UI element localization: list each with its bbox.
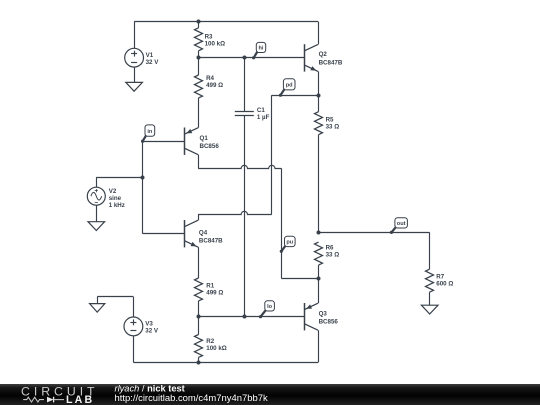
label R1 499 &#937; (206, 283, 223, 297)
svg-text:http://circuitlab.com/c4m7ny4n: http://circuitlab.com/c4m7ny4n7bb7k (115, 393, 268, 404)
node: R1 / R2 / lo junction (197, 315, 201, 319)
wire: Q3 emitter lead (to R6) (318, 278, 320, 303)
wire: Q4 emitter lead (to R1) (198, 247, 200, 278)
wire: pd net vertical (271, 95, 273, 214)
svg-text:R7: R7 (436, 273, 444, 280)
label C1 1 &#181;F (257, 107, 270, 121)
resistor R2 (195, 317, 203, 363)
svg-text:R4: R4 (206, 75, 214, 82)
wire: ground stem (V3) (97, 297, 99, 304)
wire: Q4 collector lead (198, 214, 200, 220)
svg-text:Q3: Q3 (319, 310, 328, 317)
label Q4 BC847B (199, 229, 223, 244)
wire: out net horizontal (318, 232, 430, 234)
label V3 32 V (145, 320, 159, 334)
wire: lo net (to Q3 base) (198, 316, 304, 318)
node: R6 bottom / Q3 emitter / pu junction (317, 277, 321, 281)
node: R2 / bottom rail junction (197, 361, 201, 365)
wire: pu net vertical (281, 168, 283, 278)
ground (V3 positive reference) (90, 304, 105, 313)
svg-text:V1: V1 (146, 52, 154, 59)
node: C1 top junction (243, 56, 247, 60)
wire: pu net to R6 bottom (281, 278, 318, 280)
svg-text:hi: hi (259, 46, 264, 52)
svg-text:499 Ω: 499 Ω (206, 290, 223, 297)
ground (below V2) (88, 222, 105, 231)
svg-text:out: out (397, 221, 406, 227)
CircuitLab logo resistor-diode glyph (23, 397, 64, 403)
svg-text:33 Ω: 33 Ω (326, 123, 340, 130)
svg-text:100 kΩ: 100 kΩ (206, 345, 226, 352)
wire: Q1 base wire (143, 141, 185, 143)
capacitor C1 (235, 58, 254, 317)
resistor R1 (195, 278, 203, 317)
label R4 499 &#937; (206, 75, 223, 89)
wire: out net vertical to R7 (429, 232, 431, 269)
svg-text:BC856: BC856 (319, 318, 339, 325)
transistor Q4 (NPN) (184, 220, 198, 247)
svg-text:1 kHz: 1 kHz (109, 202, 125, 209)
footer bar background (0, 384, 540, 405)
node: rail / R3 junction (197, 20, 201, 24)
svg-text:V3: V3 (145, 320, 153, 327)
flag: net in (141, 125, 155, 143)
wire: V1 top lead (134, 22, 136, 49)
svg-text:BC856: BC856 (200, 143, 220, 150)
svg-text:BC847B: BC847B (199, 237, 223, 244)
svg-text:32 V: 32 V (146, 59, 160, 66)
wire: in net vertical (Q1 base to Q4 base) (142, 141, 144, 234)
svg-text:lo: lo (267, 304, 273, 310)
resistor R5 (315, 95, 323, 232)
flag: net hi (252, 42, 266, 59)
svg-text:V2: V2 (109, 188, 117, 195)
svg-text:pd: pd (286, 83, 293, 89)
svg-text:1 µF: 1 µF (257, 114, 270, 121)
label Q1 BC856 (200, 135, 220, 150)
node: R5 / R6 / out junction (317, 231, 321, 235)
wire: Q2 collector lead to rail (318, 22, 320, 45)
svg-text:600 Ω: 600 Ω (436, 280, 453, 287)
wire: pu net horizontal (Q1 collector, hops over C1 and pd wires) (198, 165, 281, 168)
label R7 600 &#937; (436, 273, 453, 287)
wire: V1 bottom lead (134, 67, 136, 83)
wire: Q2 emitter lead (318, 71, 320, 95)
wire: V2 to in net (96, 177, 142, 179)
wire: bottom rail (133, 362, 318, 364)
node: C1 bottom / lo junction (243, 315, 247, 319)
wire: pd net horizontal top (272, 95, 318, 97)
node: V2 / in net junction (141, 176, 145, 180)
svg-text:Q4: Q4 (199, 229, 208, 236)
ground (below R7) (421, 305, 438, 314)
resistor R7 (426, 269, 434, 305)
svg-text:R2: R2 (206, 338, 214, 345)
wire: V3 to ground horizontal (97, 296, 133, 298)
flag: net lo (259, 301, 275, 319)
flag: net pd (279, 79, 295, 97)
transistor Q2 (NPN) (304, 44, 318, 71)
svg-text:in: in (147, 129, 153, 135)
label R2 100 k&#937; (206, 338, 226, 352)
svg-text:sine: sine (109, 195, 122, 202)
resistor R3 (195, 22, 203, 58)
wire: top supply rail (134, 21, 318, 23)
wire: V2 bottom lead (96, 205, 98, 222)
resistor R6 (315, 242, 323, 278)
wire: pd net to Q4 collector (hops over C1 wire) (198, 211, 272, 214)
node: R3 bottom / hi net (197, 56, 201, 60)
svg-text:Q2: Q2 (319, 51, 328, 58)
transistor Q3 (PNP) (304, 303, 318, 330)
label R3 100 k&#937; (205, 34, 225, 48)
svg-text:LAB: LAB (66, 394, 94, 405)
wire: Q1 emitter lead (to R4) (198, 127, 200, 129)
voltage source V2 (sine) (87, 187, 105, 205)
svg-text:32 V: 32 V (145, 327, 159, 334)
svg-text:C1: C1 (257, 107, 265, 114)
label V1 32 V (146, 52, 160, 66)
label V2 sine 1 kHz (109, 188, 125, 209)
flag: net out (390, 218, 408, 234)
svg-text:pu: pu (286, 240, 293, 246)
svg-text:100 kΩ: 100 kΩ (205, 41, 225, 48)
flag: net pu (280, 236, 295, 253)
wire: hi net (R3 to Q2 base) (198, 57, 304, 59)
ground (below V1) (126, 82, 143, 91)
wire: V2 top lead (96, 177, 98, 187)
label R6 33 &#937; (326, 244, 340, 258)
node: Q2 emitter / pd / R5 junction (317, 94, 321, 98)
svg-text:499 Ω: 499 Ω (206, 82, 223, 89)
wire: Q3 collector lead (to bottom rail) (318, 330, 320, 362)
svg-text:BC847B: BC847B (319, 59, 343, 66)
resistor R4 (195, 58, 203, 128)
svg-text:R5: R5 (326, 116, 334, 123)
voltage source V1 (125, 48, 144, 67)
wire: V3 top lead (133, 297, 135, 318)
transistor Q1 (PNP) (184, 128, 198, 155)
svg-text:R3: R3 (205, 34, 213, 41)
label Q2 BC847B (319, 51, 343, 66)
voltage source V3 (124, 317, 143, 336)
wire: V3 bottom lead (133, 336, 135, 363)
wire: Q1 collector lead (198, 155, 200, 169)
svg-text:Q1: Q1 (200, 135, 209, 142)
svg-text:R6: R6 (326, 244, 334, 251)
svg-text:33 Ω: 33 Ω (326, 251, 340, 258)
wire: Q4 base wire (143, 233, 185, 235)
label Q3 BC856 (319, 310, 339, 325)
label R5 33 &#937; (326, 116, 340, 130)
svg-text:R1: R1 (206, 283, 214, 290)
